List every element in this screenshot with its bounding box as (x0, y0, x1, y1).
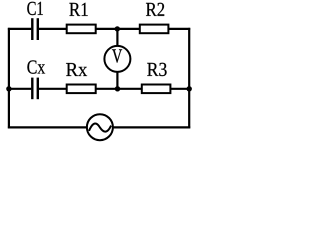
wire Rx to R3 (96, 88, 142, 90)
wire R1 to R2 (96, 28, 140, 30)
label Cx (27, 60, 45, 73)
wire voltmeter to node B (116, 72, 118, 89)
wire top left corner to C1 (8, 28, 31, 30)
wire left vertical (8, 28, 10, 128)
node A top junction dot (115, 26, 120, 31)
wire node A to voltmeter (116, 29, 118, 46)
wire Cx to Rx (39, 88, 67, 90)
resistor Rx (67, 85, 96, 94)
AC source circle (87, 114, 113, 140)
wire mid left node to Cx (8, 88, 31, 90)
label C1 (27, 2, 43, 15)
wire C1 to R1 (39, 28, 67, 30)
AC source sine wave (89, 124, 111, 132)
wire R2 to right corner (168, 28, 190, 30)
label Rx (66, 63, 87, 76)
resistor R3 (142, 85, 171, 94)
wire right vertical (188, 28, 190, 128)
resistor R1 (67, 25, 96, 34)
label R1 (69, 3, 87, 16)
label R3 (147, 63, 166, 76)
label V (112, 49, 122, 62)
capacitor C1 (31, 18, 39, 40)
label R2 (146, 3, 164, 16)
capacitor Cx (31, 78, 39, 100)
resistor R2 (140, 25, 169, 34)
wire source to right corner (113, 126, 190, 128)
wire bottom left to source (8, 126, 87, 128)
voltmeter V circle (104, 46, 130, 72)
node B middle junction dot (115, 86, 120, 91)
node left junction dot (6, 86, 11, 91)
wire R3 to right node (170, 88, 190, 90)
node right junction dot (187, 86, 192, 91)
